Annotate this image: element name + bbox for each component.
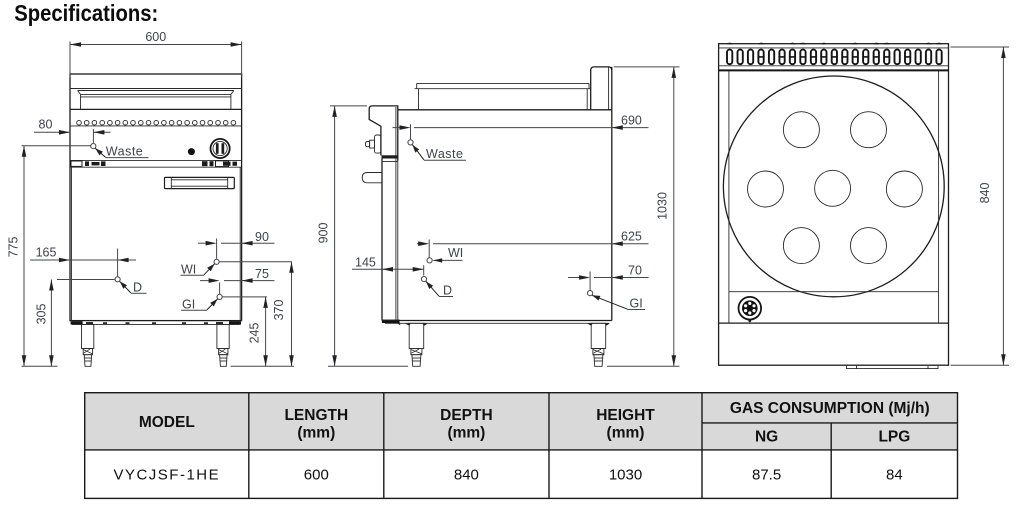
dim 625 WI depth xyxy=(417,230,649,258)
side cooktop surface xyxy=(398,109,612,111)
front right leg xyxy=(217,324,229,366)
top igniter xyxy=(739,297,762,322)
dim 1030 overall height xyxy=(607,67,680,366)
svg-text:GI: GI xyxy=(630,297,643,311)
side griddle pan xyxy=(415,83,592,109)
svg-text:70: 70 xyxy=(628,264,642,278)
top burner holes xyxy=(748,112,923,264)
svg-text:LENGTH: LENGTH xyxy=(284,407,348,424)
front cooktop surface line xyxy=(70,88,242,90)
front hinge band xyxy=(70,159,242,161)
svg-text:D: D xyxy=(133,281,142,295)
dim 900 front height xyxy=(316,106,408,366)
svg-text:87.5: 87.5 xyxy=(752,467,781,484)
svg-text:1030: 1030 xyxy=(609,467,642,484)
svg-text:600: 600 xyxy=(304,467,329,484)
svg-text:HEIGHT: HEIGHT xyxy=(596,407,655,424)
top inner side edges xyxy=(728,71,730,324)
front door handle xyxy=(165,177,235,188)
svg-text:D: D xyxy=(443,284,452,298)
front door inner edges xyxy=(71,167,73,320)
svg-text:80: 80 xyxy=(39,118,53,132)
waste callout side xyxy=(408,140,466,161)
side control panel xyxy=(369,106,398,161)
svg-text:Waste: Waste xyxy=(106,145,143,159)
side panel bottom flange xyxy=(382,155,399,158)
top inner front line xyxy=(729,291,939,293)
dim 145 drain depth xyxy=(352,255,424,275)
dim 775 overall height xyxy=(7,146,58,366)
dim 370 WI height xyxy=(272,262,294,367)
svg-text:(mm): (mm) xyxy=(297,425,335,442)
side door face xyxy=(381,159,383,321)
svg-text:DEPTH: DEPTH xyxy=(440,407,493,424)
dim 70 GI depth xyxy=(568,264,649,291)
GI callout side xyxy=(588,291,646,311)
svg-text:775: 775 xyxy=(7,237,21,258)
dim 690 waste depth xyxy=(393,113,649,139)
WI callout front xyxy=(181,259,293,276)
side back leg xyxy=(591,323,606,366)
D callout front xyxy=(115,277,147,295)
svg-text:WI: WI xyxy=(181,262,196,276)
front griddle pan xyxy=(78,91,234,110)
dim 245 GI height xyxy=(247,297,268,366)
GI callout front xyxy=(181,294,267,311)
svg-text:NG: NG xyxy=(755,429,778,446)
top back slot band xyxy=(719,47,949,49)
svg-text:305: 305 xyxy=(35,304,49,325)
svg-text:Waste: Waste xyxy=(426,147,463,161)
top big hotplate circle xyxy=(723,76,944,297)
waste callout front xyxy=(22,144,149,159)
dim 600 front width xyxy=(70,30,242,78)
svg-text:90: 90 xyxy=(255,230,269,244)
side front leg xyxy=(409,323,424,366)
svg-text:600: 600 xyxy=(145,30,166,44)
dim 165 drain offset xyxy=(30,246,136,277)
dim 90 WI offset xyxy=(198,230,275,259)
top bottom tabs xyxy=(847,365,939,368)
front ground line right xyxy=(231,365,294,367)
side backsplash xyxy=(591,67,612,110)
svg-text:1030: 1030 xyxy=(656,192,670,220)
front control knob xyxy=(211,139,230,158)
svg-text:(mm): (mm) xyxy=(607,425,645,442)
svg-text:840: 840 xyxy=(978,183,992,204)
svg-text:370: 370 xyxy=(272,300,286,321)
top front band xyxy=(719,322,949,324)
side door handle xyxy=(362,173,382,183)
side back panel edge xyxy=(611,67,613,321)
svg-text:625: 625 xyxy=(621,230,642,244)
dim 305 drain height xyxy=(35,280,115,367)
svg-text:84: 84 xyxy=(886,467,903,484)
front base line xyxy=(72,323,240,325)
dim 75 GI offset xyxy=(200,267,275,294)
dim 80 waste offset xyxy=(34,118,111,143)
front cooktop lower edge xyxy=(70,108,242,110)
side door bottom bracket xyxy=(382,320,400,323)
svg-text:840: 840 xyxy=(454,467,479,484)
top view outline xyxy=(719,44,949,366)
front view body outline xyxy=(70,74,242,321)
WI callout side xyxy=(427,246,463,263)
svg-text:900: 900 xyxy=(316,223,330,244)
dim 840 depth xyxy=(951,47,1010,365)
front pilot dot xyxy=(188,148,195,155)
spec table xyxy=(85,393,958,499)
front burner vent holes xyxy=(77,120,236,125)
svg-text:MODEL: MODEL xyxy=(139,414,195,431)
svg-text:WI: WI xyxy=(448,246,463,260)
front left leg xyxy=(82,324,94,366)
svg-text:245: 245 xyxy=(247,323,261,344)
svg-text:GI: GI xyxy=(182,297,195,311)
svg-text:75: 75 xyxy=(255,267,269,281)
side bottom lines xyxy=(382,320,612,322)
svg-text:165: 165 xyxy=(36,246,57,260)
D callout side xyxy=(421,277,453,298)
svg-text:690: 690 xyxy=(621,113,642,127)
svg-text:(mm): (mm) xyxy=(447,425,485,442)
svg-text:LPG: LPG xyxy=(878,429,910,446)
side knob xyxy=(365,135,380,153)
svg-text:Specifications:: Specifications: xyxy=(14,0,158,26)
svg-text:GAS CONSUMPTION (Mj/h): GAS CONSUMPTION (Mj/h) xyxy=(730,400,930,417)
svg-text:145: 145 xyxy=(355,255,376,269)
svg-text:VYCJSF-1HE: VYCJSF-1HE xyxy=(113,467,220,484)
